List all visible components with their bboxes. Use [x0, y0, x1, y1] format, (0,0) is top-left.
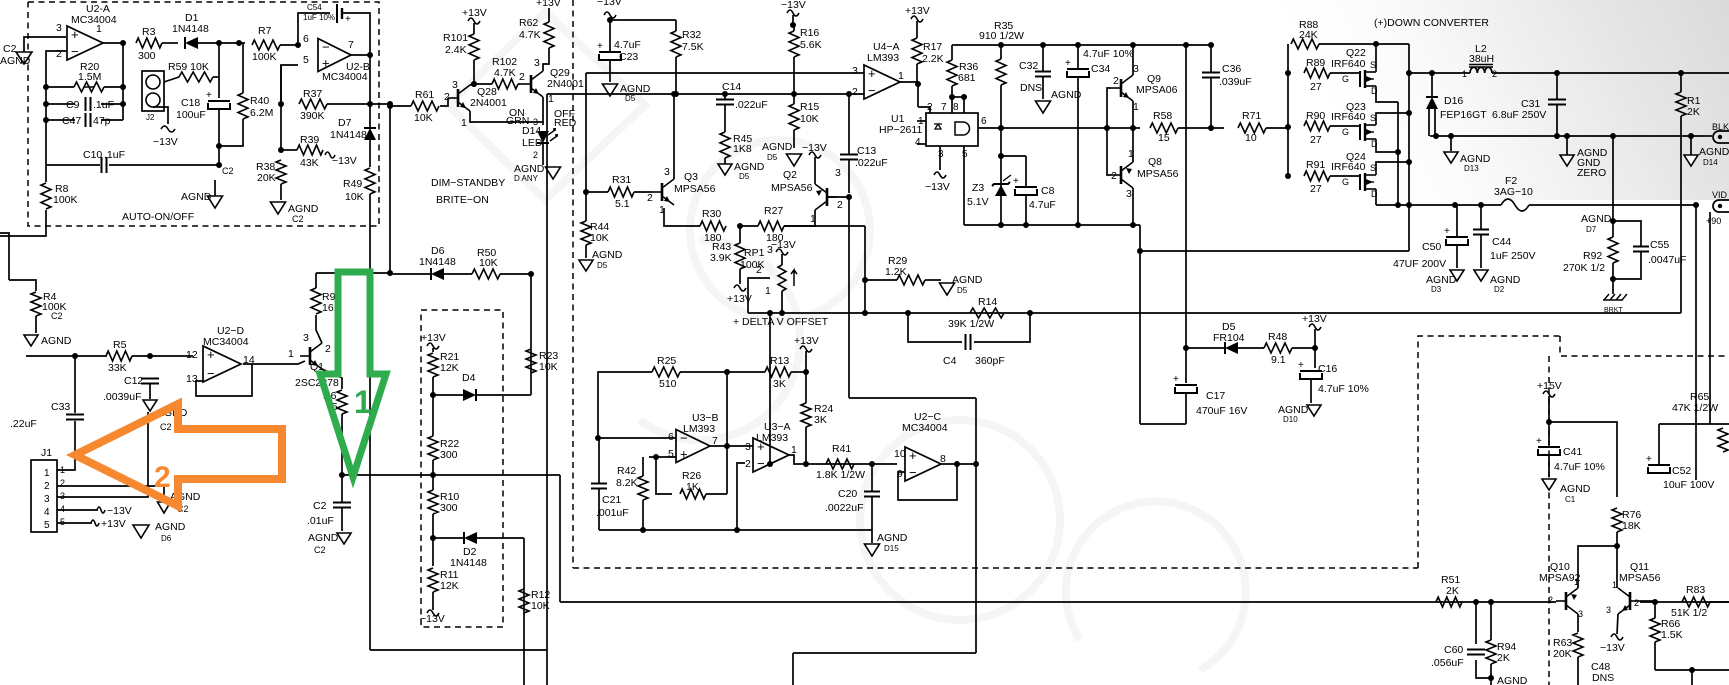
dashed box AUTO-ON/OFF [28, 2, 379, 226]
svg-text:S: S [1370, 60, 1376, 70]
wire R43 down [739, 269, 741, 284]
wire R10 down [432, 514, 434, 538]
label AGND (R94) [1497, 675, 1528, 685]
wire J1 pin4 [57, 509, 98, 511]
label R26 val2 [0, 0, 1, 1]
resistor R92 [1608, 237, 1618, 263]
wire C18 down [218, 110, 220, 146]
svg-text:(+)DOWN CONVERTER: (+)DOWN CONVERTER [1374, 17, 1489, 29]
resistor R31 [608, 174, 634, 210]
wire R1 top [1680, 73, 1682, 92]
svg-text:+: + [1536, 436, 1542, 447]
wire R9 top [315, 273, 317, 288]
svg-text:6: 6 [668, 431, 674, 443]
node C47 left [43, 117, 49, 123]
node y464 a [767, 461, 773, 467]
wire D6 left [390, 273, 430, 275]
label R42 [617, 465, 636, 477]
resistor R61 [411, 89, 439, 124]
ground AGND D2 [1474, 270, 1521, 294]
svg-text:5.6K: 5.6K [800, 39, 822, 51]
svg-text:AGND: AGND [1699, 146, 1729, 158]
svg-text:FEP16GT: FEP16GT [1440, 109, 1487, 121]
svg-text:2K: 2K [1497, 652, 1510, 664]
svg-text:10uF 100V: 10uF 100V [1663, 479, 1714, 491]
node base bus [1104, 125, 1110, 131]
label R9 val [322, 302, 341, 314]
label MPSA92 [1539, 572, 1581, 584]
svg-text:.022uF: .022uF [855, 157, 888, 169]
power -13V (Q2) [802, 142, 827, 158]
svg-text:−: − [868, 83, 876, 98]
wire RP1 top [781, 254, 783, 265]
label R9 [322, 291, 336, 303]
wire U1 pin1 stub [917, 120, 926, 122]
wire C31 top [1556, 73, 1558, 99]
wire C52 top [1658, 424, 1660, 465]
svg-text:3: 3 [1126, 188, 1132, 200]
svg-text:2N4001: 2N4001 [547, 78, 584, 90]
resistor R35 body [996, 59, 1006, 85]
svg-text:−13V: −13V [420, 613, 445, 625]
node y225 b [1023, 222, 1029, 228]
wire blk stub [1700, 135, 1712, 137]
svg-text:C17: C17 [1206, 390, 1225, 402]
wire Q10 coll [1577, 614, 1579, 632]
node U2C out [954, 461, 960, 467]
node R31 left [583, 189, 589, 195]
node C12 top [147, 353, 153, 359]
svg-text:8.2K: 8.2K [616, 477, 638, 489]
svg-text:−13V: −13V [771, 239, 796, 251]
wire C47 left [46, 119, 75, 121]
transistor Q9 [1111, 63, 1178, 113]
power squiggle +15V [1543, 391, 1555, 397]
connector J1 [31, 460, 65, 532]
svg-text:300: 300 [440, 449, 458, 461]
wire D5-R48 [1238, 347, 1264, 349]
svg-text:R41: R41 [832, 443, 851, 455]
svg-text:Q2: Q2 [783, 169, 797, 181]
wire C20 bot [871, 497, 873, 530]
dashed box right edge [1418, 336, 1560, 568]
node C4 right [1027, 310, 1033, 316]
wire J1 pin3 [57, 412, 148, 497]
svg-text:R39: R39 [300, 134, 319, 146]
svg-text:R31: R31 [612, 174, 631, 186]
node -13V R16 [790, 22, 796, 28]
svg-text:C2: C2 [292, 214, 304, 224]
resistor R102 [492, 56, 518, 89]
svg-text:C23: C23 [619, 51, 638, 63]
diode D4 [462, 372, 476, 401]
wire R63 down [1577, 657, 1579, 685]
power -13V (RP1) [771, 239, 796, 255]
wire R36 down [951, 86, 953, 97]
svg-text:R62: R62 [519, 17, 538, 29]
transistor Q3 [652, 171, 716, 205]
svg-text:2.2K: 2.2K [922, 53, 944, 65]
svg-text:1: 1 [659, 204, 665, 216]
wire C44 top [1480, 205, 1482, 229]
svg-text:1.5K: 1.5K [1661, 629, 1683, 641]
svg-text:IRF640: IRF640 [1331, 111, 1366, 123]
svg-text:+: + [71, 27, 79, 42]
label J1 [41, 447, 52, 459]
svg-text:R15: R15 [800, 101, 819, 113]
wire R58 right [1178, 127, 1224, 129]
wire LED down [542, 143, 544, 165]
chassis ground BRKT [1603, 294, 1627, 314]
node pin5 [653, 454, 659, 460]
label R63 val [1553, 648, 1572, 660]
node C9 left [43, 101, 49, 107]
wire Q2 base right [827, 196, 849, 198]
svg-text:AGND: AGND [1497, 675, 1528, 685]
wire R20 left [46, 86, 74, 88]
svg-text:300: 300 [440, 502, 458, 514]
svg-text:C2: C2 [314, 545, 326, 555]
label R41 val [816, 469, 865, 481]
svg-text:−13V: −13V [1600, 642, 1625, 654]
wire R48 right [1292, 347, 1315, 349]
svg-text:18K: 18K [1622, 520, 1641, 532]
wire Q10 branch [1578, 546, 1617, 588]
wire pin5 left [281, 65, 298, 150]
svg-text:R48: R48 [1268, 331, 1287, 343]
node R92 top [1610, 218, 1616, 224]
svg-text:3: 3 [745, 441, 751, 453]
label R35 [994, 20, 1013, 32]
svg-text:3: 3 [938, 149, 944, 160]
svg-text:1: 1 [461, 117, 467, 129]
svg-text:.001uF: .001uF [596, 507, 629, 519]
node emitters [1130, 125, 1136, 131]
ground AGND C2 (J1 pin2) [158, 491, 201, 514]
node D4 left [430, 392, 436, 398]
label DIM-STANDBY [431, 177, 505, 189]
wire x586 col [585, 73, 587, 192]
svg-text:C10: C10 [83, 149, 102, 161]
svg-text:C20: C20 [838, 488, 857, 500]
wire C10 left [46, 164, 100, 166]
svg-text:2: 2 [444, 91, 450, 103]
wire R102 left [474, 83, 492, 85]
wire gnd stub [214, 180, 216, 196]
svg-text:AGND: AGND [308, 532, 339, 544]
wire R50 right [500, 273, 531, 275]
LED D14 [522, 125, 558, 149]
svg-text:G: G [1342, 127, 1349, 137]
node R36 bot [949, 94, 955, 100]
diode D5 [1213, 321, 1245, 354]
svg-text:+: + [680, 447, 688, 462]
svg-text:2.4K: 2.4K [445, 44, 467, 56]
ground AGND D5 (R15) [762, 141, 802, 166]
wire x1696 down [1695, 205, 1697, 480]
wire R59 left [164, 77, 179, 82]
node pin8 top [961, 94, 967, 100]
node C36 rail [1208, 42, 1214, 48]
resistor R32 [671, 31, 681, 57]
wire U3A pin2 [737, 463, 745, 530]
wire U2-A out [103, 42, 122, 44]
wire pin8 col [963, 97, 965, 113]
diode D7 [330, 117, 376, 141]
node U2C out2 [973, 461, 979, 467]
svg-text:C41: C41 [1563, 446, 1582, 458]
svg-text:1: 1 [96, 23, 102, 35]
label R49 val [345, 191, 364, 203]
wire Q28 emitter to LED [470, 111, 543, 122]
node U2-B out [367, 52, 373, 58]
wire C54 right [342, 13, 370, 55]
svg-text:10K: 10K [590, 232, 609, 244]
svg-text:C9: C9 [66, 99, 80, 111]
svg-text:1uF 10%: 1uF 10% [303, 13, 335, 22]
pin3 Q3 [664, 166, 670, 178]
svg-text:R30: R30 [702, 208, 721, 220]
wire y475 [342, 474, 560, 476]
label MPSA56 Q11 [1619, 572, 1661, 584]
wire U4A out down [917, 84, 919, 107]
resistor R51 [1436, 574, 1462, 607]
svg-text:C36: C36 [1222, 63, 1241, 75]
label R12 [531, 589, 550, 601]
label R17 [923, 41, 942, 53]
node Q3 coll [671, 91, 677, 97]
wire C2 bot [341, 508, 343, 531]
wire y273 left [316, 272, 390, 274]
ground C2 AGND [0, 37, 66, 67]
svg-text:+: + [1065, 58, 1071, 69]
node U4A out [915, 81, 921, 87]
wire U1 pin3 [939, 146, 941, 170]
power squiggle R21 [427, 343, 439, 349]
svg-text:−13V: −13V [802, 142, 827, 154]
svg-text:+13V: +13V [1302, 313, 1327, 325]
svg-text:3K: 3K [814, 414, 827, 426]
svg-text:.0022uF: .0022uF [825, 502, 864, 514]
svg-text:1K: 1K [686, 481, 699, 493]
node C10 right [216, 162, 222, 168]
svg-text:5: 5 [303, 54, 309, 66]
node -13V rail [607, 17, 613, 23]
node R37 left [278, 101, 284, 107]
svg-text:9.1: 9.1 [1271, 354, 1286, 366]
wire R42 bot [642, 500, 644, 530]
wire Q11 base [1640, 600, 1655, 602]
svg-text:D5: D5 [625, 94, 636, 103]
wire R26 up [726, 447, 728, 494]
wire R17 down [917, 64, 918, 84]
wire R83 right [1710, 601, 1729, 603]
node R66 top [1652, 599, 1658, 605]
pin1 Q28 [461, 117, 467, 129]
svg-text:510: 510 [659, 378, 677, 390]
svg-text:10K: 10K [531, 600, 550, 612]
svg-text:C2: C2 [222, 166, 234, 176]
wire Q3 coll up [673, 94, 675, 179]
node Q28 coll [471, 81, 477, 87]
wire D5 left [1186, 347, 1224, 349]
wire C16 down [1310, 380, 1312, 403]
wire J1 pin2 [57, 486, 164, 501]
svg-text:10K: 10K [800, 113, 819, 125]
wire down to C10 row [218, 146, 220, 165]
wire +13V-R101 [473, 23, 475, 34]
wire C34 down [1077, 78, 1079, 225]
capacitor C31 [1492, 98, 1566, 121]
svg-text:S: S [1370, 113, 1376, 123]
svg-text:D5: D5 [597, 261, 608, 270]
svg-text:12K: 12K [440, 580, 459, 592]
svg-text:D5: D5 [957, 286, 968, 295]
node R51 a [1473, 599, 1479, 605]
label R16 [800, 27, 819, 39]
ground AGND D6 [133, 521, 186, 543]
svg-text:100uF: 100uF [176, 109, 206, 121]
wire Q9 collector [1132, 45, 1134, 75]
node Q2 base [846, 194, 852, 200]
ground AGND D10 [1278, 404, 1321, 424]
mosfet Q22 [1342, 60, 1378, 96]
wire R101-Q28 [473, 60, 475, 84]
node R61 left [387, 103, 393, 109]
resistor R22 [428, 436, 438, 460]
label R16 val [800, 39, 822, 51]
wire C20 top [871, 464, 873, 491]
svg-text:IRF640: IRF640 [1331, 58, 1366, 70]
ground AGND D5 (C23) [603, 83, 651, 103]
resistor R62 [544, 22, 554, 48]
resistor R39 [297, 134, 323, 169]
svg-text:C4: C4 [943, 355, 957, 367]
label IRF640 Q22 [1331, 58, 1366, 70]
label R22 val [440, 449, 458, 461]
svg-text:47K 1/2W: 47K 1/2W [1672, 402, 1718, 414]
svg-text:+: + [322, 56, 330, 71]
resistor R90 [1304, 110, 1330, 146]
wire y424 [1140, 423, 1186, 425]
wire R22 down [432, 460, 434, 475]
capacitor C52 [1646, 454, 1714, 491]
svg-text:8: 8 [953, 102, 959, 113]
node R37 right [367, 101, 373, 107]
svg-text:RP1: RP1 [744, 247, 765, 259]
resistor R15 [789, 104, 799, 130]
capacitor C8 [1013, 176, 1056, 211]
wire R66 down [1654, 642, 1656, 670]
wire U2C fb [898, 464, 957, 500]
svg-text:D13: D13 [1464, 164, 1479, 173]
wire C50 bot [1456, 246, 1458, 268]
label (+)DOWN CONVERTER [1374, 17, 1489, 29]
svg-text:D: D [1371, 86, 1378, 96]
svg-text:AGND: AGND [155, 521, 186, 533]
svg-text:2: 2 [325, 343, 331, 355]
svg-text:4.7K: 4.7K [494, 67, 516, 79]
label R66 [1661, 618, 1680, 630]
svg-text:+15V: +15V [1537, 380, 1562, 392]
label 2SC2878 [295, 377, 339, 389]
wire pin6 wire [598, 437, 676, 439]
resistor R48 [1264, 331, 1292, 366]
wire C41 down [1548, 456, 1550, 477]
wire R62-Q29 [543, 48, 549, 71]
wire R76 bot [1616, 532, 1618, 546]
wire C10-R8 [45, 165, 47, 182]
svg-text:5: 5 [44, 520, 50, 531]
node U2-B pin6 [295, 42, 301, 48]
svg-text:R13: R13 [770, 355, 789, 367]
label R44 val [590, 232, 609, 244]
node C18 top [236, 40, 242, 46]
fuse F2 [1494, 175, 1533, 211]
svg-text:C21: C21 [602, 494, 621, 506]
svg-text:43K: 43K [300, 157, 319, 169]
wire C14 stem [724, 94, 726, 99]
wire R21-R22 [432, 395, 434, 436]
wire D7 top [369, 104, 371, 128]
svg-text:D5: D5 [739, 172, 750, 181]
wire x1140 down [1139, 225, 1141, 424]
svg-text:C14: C14 [722, 81, 741, 93]
wire R91 right [1330, 175, 1360, 177]
node pin6 [595, 435, 601, 441]
svg-text:1N4148: 1N4148 [419, 256, 456, 268]
svg-text:AGND: AGND [1051, 89, 1082, 101]
svg-text:3: 3 [56, 22, 62, 34]
resistor R8 [41, 183, 78, 209]
svg-text:+90: +90 [1706, 216, 1721, 226]
svg-text:DNS: DNS [1020, 82, 1042, 94]
capacitor C50 [1393, 226, 1468, 270]
svg-text:6.8uF 250V: 6.8uF 250V [1492, 109, 1546, 121]
svg-text:3: 3 [303, 332, 309, 344]
svg-text:+: + [1646, 454, 1652, 465]
label R92 val [1563, 262, 1605, 274]
svg-text:27: 27 [1310, 183, 1322, 195]
wire R11 top [432, 538, 434, 566]
svg-text:.01uF: .01uF [307, 515, 334, 527]
label R92 [1583, 250, 1602, 262]
pin1 Q3 [659, 204, 665, 216]
resistor R3 [136, 26, 162, 62]
node R92 bot [1610, 276, 1616, 282]
wire Q2 down [848, 197, 850, 398]
node y225 c [1075, 222, 1081, 228]
label R32 val [682, 41, 704, 53]
label R15 [800, 101, 819, 113]
wire R102 right [518, 83, 521, 85]
svg-text:C32: C32 [1019, 60, 1038, 72]
label IRF640 Q24 [1331, 161, 1366, 173]
wire R35 stub [1000, 45, 1002, 59]
svg-text:4.7uF 10%: 4.7uF 10% [1318, 383, 1369, 395]
svg-text:MPSA56: MPSA56 [1137, 168, 1179, 180]
wire Q23 D [1376, 144, 1398, 152]
svg-text:R25: R25 [657, 355, 676, 367]
wire R6 bot [341, 414, 343, 475]
wire U3A in3 [745, 445, 753, 447]
wire R20 right up [122, 43, 124, 87]
svg-text:2SC2878: 2SC2878 [295, 377, 339, 389]
label R66 val [1661, 629, 1683, 641]
svg-text:Q8: Q8 [1148, 156, 1162, 168]
label R76 [1622, 509, 1641, 521]
pin3 Q1 [303, 332, 309, 344]
